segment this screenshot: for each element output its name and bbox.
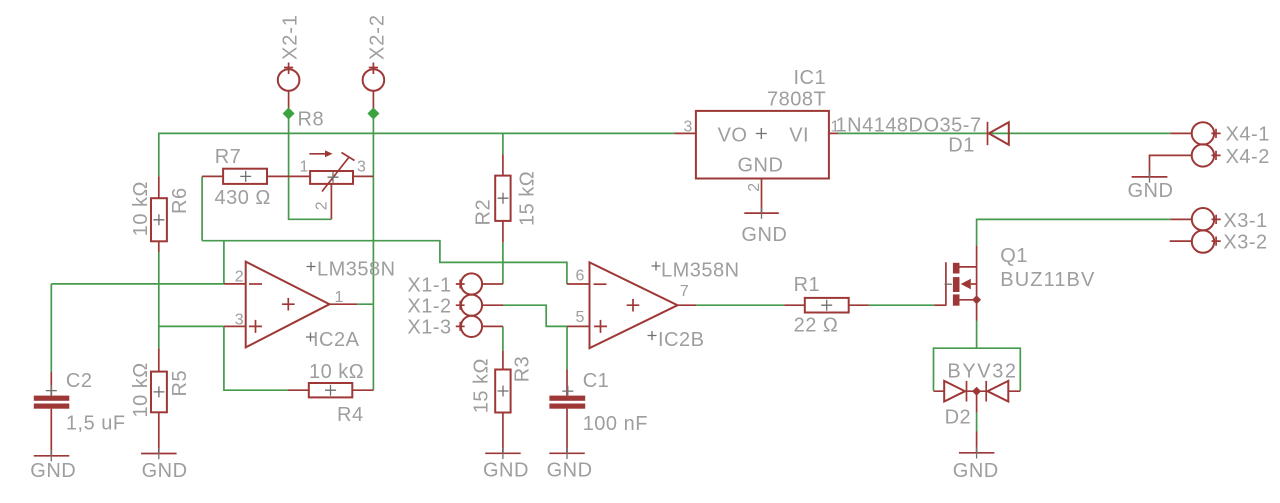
svg-text:LM358N: LM358N [661, 259, 740, 281]
ground symbol D2 [959, 452, 995, 454]
trimmer R8 wiper [322, 153, 355, 192]
wire IC1 pin1 stub [829, 132, 838, 134]
svg-text:15 kΩ: 15 kΩ [517, 171, 539, 226]
svg-text:GND: GND [547, 460, 593, 482]
svg-text:7: 7 [680, 283, 689, 300]
svg-text:10 kΩ: 10 kΩ [130, 181, 152, 236]
wire D2 GND stub [976, 432, 978, 453]
wire R2 stubs [502, 154, 504, 242]
svg-text:R7: R7 [215, 146, 242, 168]
wire C2 vertical [50, 284, 52, 372]
wire X3-1 stub [1170, 218, 1192, 220]
wire X1-2 to IC2B pin5 [503, 305, 567, 326]
svg-text:1N4148DO35-7: 1N4148DO35-7 [836, 115, 982, 137]
svg-text:BUZ11BV: BUZ11BV [1000, 269, 1095, 291]
wire R6 stubs [158, 176, 160, 252]
wire D2 center drop [976, 391, 978, 412]
svg-text:BYV32: BYV32 [947, 360, 1017, 382]
voltage regulator IC1 box [696, 111, 829, 179]
resistor R1 body [805, 298, 849, 313]
svg-text:1: 1 [335, 289, 344, 306]
wire R3 stubs [502, 351, 504, 454]
svg-text:X3-2: X3-2 [1223, 232, 1267, 254]
origin cross gnd X4 [1149, 171, 1151, 182]
origin cross IC2B name [652, 262, 661, 271]
svg-text:GND: GND [1128, 180, 1174, 202]
wire IC1 pin2 GND stub [761, 179, 763, 214]
connector X4-2 [1192, 144, 1221, 166]
svg-text:GND: GND [30, 460, 76, 482]
diode D1 [988, 122, 1009, 145]
origin cross trimmer R8 [328, 172, 339, 183]
origin cross R2 [498, 193, 509, 204]
wire net IC2A pin3 horizontal [159, 325, 224, 327]
wire R2 top stub to rail [502, 133, 504, 154]
svg-text:GND: GND [483, 460, 529, 482]
svg-text:IC2B: IC2B [658, 329, 704, 351]
trimmer R8 body [310, 171, 353, 184]
wire D2 anode loop [934, 348, 1021, 391]
svg-text:VO: VO [718, 124, 748, 146]
svg-text:X2-1: X2-1 [280, 14, 302, 60]
wire R7 left stub [202, 175, 223, 177]
resistor R7 body [223, 169, 267, 184]
wire X1-1 stub [482, 283, 503, 285]
wire IC2A pin2 stub [224, 283, 246, 285]
wire IC2A output stub [330, 303, 358, 305]
ground symbol C2 [34, 455, 70, 457]
junction dot X2-1 [283, 108, 295, 120]
svg-text:D2: D2 [945, 407, 972, 429]
svg-text:Q1: Q1 [1000, 245, 1028, 267]
svg-text:2: 2 [235, 268, 244, 285]
wire R5 stubs [158, 348, 160, 453]
origin cross R1 [821, 300, 832, 311]
svg-text:R2: R2 [473, 199, 495, 226]
wire net H1 drop to IC2A pin2 [223, 241, 225, 284]
svg-text:X1-2: X1-2 [407, 295, 451, 317]
wire IC2A pin2 horizontal to C2 [51, 283, 224, 285]
ground symbol R5 [141, 453, 177, 455]
origin cross IC2A ident [306, 333, 315, 342]
junction diamond Q1 source [972, 295, 981, 304]
wire trimmer pin2 stub [330, 184, 332, 219]
wire trimmer pin3 stub to X2-2 net [353, 175, 373, 177]
op-amp IC2B [590, 262, 678, 348]
wire IC2A pin3 stub [224, 325, 246, 327]
connector X1-1 [456, 273, 482, 294]
wire net VO-8V top rail [159, 133, 675, 176]
svg-text:IC1: IC1 [794, 67, 827, 89]
svg-text:3: 3 [684, 118, 693, 135]
wire R2 bottom to X1-1 [502, 242, 504, 284]
wire X4-2 to GND [1150, 155, 1192, 177]
origin cross C2 [46, 385, 57, 396]
svg-text:R8: R8 [298, 109, 325, 131]
svg-text:R4: R4 [337, 404, 364, 426]
svg-text:GND: GND [142, 460, 188, 482]
wire R1 to Q1 gate [869, 304, 935, 306]
wire Q1 source to D2 [976, 321, 978, 349]
origin cross Q1 [945, 283, 952, 285]
origin cross gnd IC1 [761, 208, 763, 219]
wire IC2B pin5 to C1 [566, 326, 568, 369]
svg-text:C2: C2 [66, 370, 93, 392]
svg-text:3: 3 [235, 311, 244, 328]
svg-text:2: 2 [313, 201, 330, 210]
svg-text:D1: D1 [948, 134, 975, 156]
svg-text:GND: GND [738, 154, 784, 176]
wire X2-2 pin stub [372, 91, 374, 114]
op-amp IC2A [246, 262, 330, 348]
ground symbol IC1 [744, 212, 779, 214]
svg-text:GND: GND [741, 224, 787, 246]
resistor R4 body [309, 383, 353, 397]
svg-text:X2-2: X2-2 [367, 14, 389, 60]
capacitor C1 plates [549, 396, 585, 409]
origin cross gnd C1 [566, 448, 568, 459]
origin cross R3 [498, 386, 509, 397]
dual diode D2 [934, 381, 1021, 402]
ground symbol C1 [549, 452, 585, 454]
svg-text:15 kΩ: 15 kΩ [471, 358, 493, 413]
resistor R2 body [495, 176, 510, 221]
wire net X3-1 to Q1 drain [977, 219, 1171, 245]
svg-text:C1: C1 [583, 370, 610, 392]
wire C1 stubs [566, 370, 568, 454]
connector X1-2 [456, 295, 482, 316]
wire C2 stubs [50, 372, 52, 456]
origin cross gnd C2 [50, 450, 52, 461]
resistor R6 body [151, 198, 167, 241]
resistor R5 body [151, 372, 167, 413]
wire IC2B pin6 stub [567, 283, 590, 285]
origin cross IC1 [756, 128, 767, 139]
ground symbol R3 [485, 452, 521, 454]
svg-text:R3: R3 [512, 356, 534, 383]
wire Q1 drain stub [976, 245, 978, 267]
svg-text:1,5 uF: 1,5 uF [66, 413, 126, 435]
wire X2-1 pin stub [288, 91, 290, 114]
wire IC1 VO to D1 to X4-1 [838, 132, 1170, 134]
origin cross R5 [153, 386, 164, 397]
origin cross R7 [240, 171, 251, 182]
origin cross IC2B ident [648, 331, 657, 340]
svg-text:1: 1 [300, 159, 309, 176]
wire X1-3 to R3 [502, 326, 504, 350]
svg-text:R6: R6 [169, 187, 191, 214]
connector X3-1 [1192, 208, 1221, 230]
wire X1-2 stub [482, 304, 503, 306]
connector X3-2 [1192, 230, 1221, 252]
wire IC1 pin3 stub [674, 132, 696, 134]
svg-text:X1-3: X1-3 [407, 317, 451, 339]
capacitor C2 plates [34, 396, 70, 409]
svg-text:3: 3 [357, 159, 366, 176]
origin cross R6 [153, 214, 164, 225]
connector X4-1 [1192, 122, 1221, 144]
svg-text:2: 2 [746, 183, 763, 192]
svg-text:430 Ω: 430 Ω [215, 187, 271, 209]
svg-text:10 kΩ: 10 kΩ [130, 362, 152, 417]
wire IC2B output stub [678, 304, 697, 306]
wire IC2B output to R1 [696, 304, 784, 306]
wire R7 right to trimmer pin1 [267, 175, 310, 177]
svg-text:5: 5 [576, 309, 585, 326]
svg-text:X4-1: X4-1 [1226, 124, 1270, 146]
origin cross gnd R5 [158, 448, 160, 459]
origin cross gnd R3 [502, 448, 504, 459]
wire IC2A output to X2-2 net [357, 303, 373, 305]
wire X1-3 stub [482, 325, 503, 327]
connector X2-2 [363, 63, 385, 91]
junction diamond D2 center [972, 387, 981, 396]
svg-text:R1: R1 [794, 274, 821, 296]
svg-text:GND: GND [953, 460, 999, 482]
wire R4 stubs [288, 389, 374, 391]
wire Q1 gate stub [934, 304, 946, 306]
svg-text:IC2A: IC2A [313, 329, 360, 351]
svg-text:22 Ω: 22 Ω [794, 315, 839, 337]
wire IC2B pin5 stub [567, 325, 590, 327]
transistor Q1 [946, 262, 977, 306]
svg-text:10 kΩ: 10 kΩ [309, 361, 364, 383]
origin cross gnd D2 [976, 447, 978, 458]
origin cross IC2A name [307, 262, 316, 271]
wire net X2-1 to trimmer pin2 [289, 114, 332, 220]
origin cross R4 [325, 385, 336, 396]
svg-text:LM358N: LM358N [317, 258, 396, 280]
junction dot X2-2 [367, 108, 379, 120]
svg-text:X3-1: X3-1 [1223, 210, 1267, 232]
origin cross C1 [562, 386, 573, 397]
wire net R7-left vertical [201, 176, 203, 240]
ground symbol X4-2 [1132, 176, 1168, 178]
wire X3-2 stub [1170, 240, 1192, 242]
connector X2-1 [278, 63, 300, 91]
svg-text:X4-2: X4-2 [1226, 146, 1270, 168]
wire X4-1 stub [1170, 132, 1191, 134]
wire D2 cathode to GND [976, 413, 978, 432]
wire net X2-2 output vertical [372, 114, 374, 391]
wire net H1 to IC2B pin6 [202, 241, 567, 284]
connector X1-3 [456, 316, 482, 337]
svg-text:X1-1: X1-1 [407, 274, 451, 296]
trimmer R8 arrow [309, 153, 326, 155]
wire net R4-left feedback to pin3 [224, 326, 288, 390]
svg-text:VI: VI [789, 124, 809, 146]
wire Q1 source to D2 stub [976, 300, 978, 321]
svg-text:R5: R5 [169, 370, 191, 397]
resistor R3 body [495, 370, 510, 413]
wire R1 stubs [784, 304, 868, 306]
svg-text:100 nF: 100 nF [583, 413, 648, 435]
svg-text:6: 6 [576, 268, 585, 285]
wire net VO-8V R6-R5 vertical [158, 252, 160, 348]
svg-text:7808T: 7808T [767, 89, 826, 111]
